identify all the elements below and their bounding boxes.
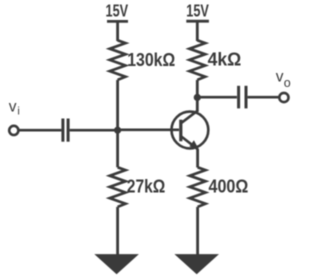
svg-text:27kΩ: 27kΩ [127,177,166,197]
Q1 base bar [179,120,182,142]
wire RC to collector node [196,80,199,98]
terminal vi [9,126,18,135]
wire RE to ground [196,207,199,255]
svg-text:v: v [276,69,284,86]
node base junction [115,128,120,133]
svg-text:400Ω: 400Ω [209,176,249,196]
svg-text:i: i [17,106,19,118]
node collector junction [195,95,200,100]
wire R2 to ground [116,207,119,255]
svg-text:15V: 15V [186,1,209,21]
wire base node down to R2 [116,130,119,167]
svg-text:15V: 15V [106,1,129,21]
capacitor C2 [239,86,246,109]
supply terminal bar (left) [107,20,128,23]
ground (left) [94,254,139,274]
wire Q1 emitter to RE [196,149,199,168]
Q1 emitter arrow [189,140,198,148]
wire R1 to base node [116,80,119,130]
wire C1 to base node [70,129,118,132]
capacitor C1 [63,119,68,142]
svg-text:4kΩ: 4kΩ [208,50,242,70]
resistor RE 400Ohm [190,167,206,207]
wire supply bar to R1 [116,21,119,41]
svg-text:o: o [284,76,291,90]
wire collector node to C2 [197,96,237,99]
wire collector node down to Q1 collector [196,97,199,111]
svg-text:v: v [9,98,17,115]
label vo [276,69,291,90]
wire vi to C1 [18,129,61,132]
svg-text:130kΩ: 130kΩ [127,50,175,70]
Q1 collector lead [182,110,199,123]
Q1 envelope circle [172,112,209,149]
transistor Q1 (NPN BJT) [172,110,209,149]
terminal vo [279,93,288,102]
wire supply bar to RC [196,21,199,41]
supply terminal bar (right) [186,20,209,23]
label vi [9,98,20,117]
resistor R1 130kOhm [110,40,126,80]
resistor RC 4kOhm [189,40,205,80]
Q1 emitter lead [182,137,198,150]
resistor R2 27kOhm [110,167,126,207]
wire base node to transistor base [118,128,179,131]
ground (right) [174,254,219,274]
wire C2 to vo terminal [248,96,279,99]
